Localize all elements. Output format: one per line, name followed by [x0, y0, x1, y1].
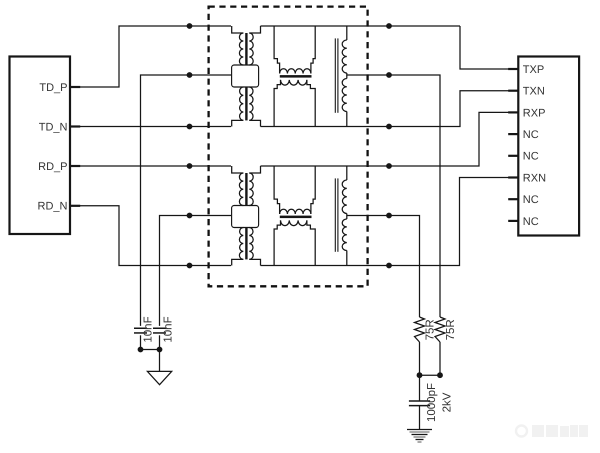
svg-text:75R: 75R [445, 319, 457, 340]
svg-text:1000pF: 1000pF [426, 383, 438, 422]
svg-text:TD_N: TD_N [39, 121, 68, 133]
svg-text:NC: NC [523, 151, 539, 163]
svg-text:75R: 75R [424, 319, 436, 340]
svg-text:RXP: RXP [523, 107, 546, 119]
svg-text:RXN: RXN [523, 172, 546, 184]
svg-text:TXP: TXP [523, 64, 544, 76]
svg-text:TD_P: TD_P [39, 82, 67, 94]
svg-text:TXN: TXN [523, 86, 545, 98]
svg-text:RD_N: RD_N [38, 201, 68, 213]
svg-text:NC: NC [523, 216, 539, 228]
svg-text:RD_P: RD_P [38, 161, 67, 173]
svg-text:10nF: 10nF [143, 316, 155, 342]
svg-text:NC: NC [523, 129, 539, 141]
svg-text:10nF: 10nF [163, 316, 175, 342]
svg-text:NC: NC [523, 194, 539, 206]
svg-text:2kV: 2kV [442, 392, 454, 412]
